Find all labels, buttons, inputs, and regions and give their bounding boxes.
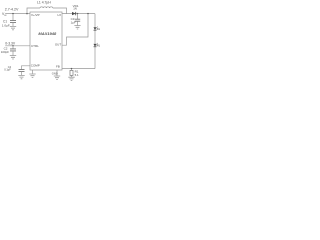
- svg-text:IN: IN: [4, 15, 7, 17]
- svg-text:CTRL: CTRL: [31, 44, 39, 48]
- svg-text:0.1µF: 0.1µF: [4, 67, 11, 71]
- resistor R1: [70, 69, 73, 78]
- inductor L1: [40, 7, 53, 8]
- node junction output cap tap: [77, 13, 78, 14]
- diode VD1: [72, 12, 76, 15]
- wire OUT sense connection: [62, 14, 88, 46]
- resistor R1 label: [75, 69, 79, 76]
- wire COMP pin: [22, 66, 31, 70]
- capacitor C1 label: [2, 20, 10, 28]
- ground R1: [68, 77, 74, 80]
- node junction L1 tap: [26, 13, 27, 14]
- node junction FB resistor tap: [71, 68, 72, 69]
- wire VIN rail: [5, 13, 30, 15]
- ground COMP cap: [18, 75, 24, 78]
- LED HL2: [94, 43, 99, 47]
- capacitor C3 label: [71, 17, 76, 24]
- node junction OVP rail tap: [87, 13, 88, 14]
- svg-text:2.7-4.2V: 2.7-4.2V: [5, 8, 19, 12]
- ground IC PGND: [54, 76, 60, 79]
- diode VD1 label: [73, 4, 79, 11]
- svg-text:5.1: 5.1: [75, 73, 79, 77]
- svg-text:HL2: HL2: [97, 43, 100, 47]
- node junction CTRL cap tap: [12, 45, 13, 46]
- wire inductor to LX riser: [53, 8, 67, 14]
- wire LED string drop: [94, 14, 96, 69]
- svg-text:MAX1948: MAX1948: [38, 31, 57, 36]
- svg-text:1.0µF: 1.0µF: [2, 23, 10, 27]
- svg-text:COMP: COMP: [31, 63, 40, 67]
- node VIN input label: [2, 12, 7, 17]
- IC U1 MAX1948 box: [30, 12, 62, 70]
- capacitor C1 input branch: [10, 14, 16, 27]
- svg-text:HL1: HL1: [97, 27, 100, 31]
- ground IC GND: [29, 74, 35, 77]
- capacitor C3 output branch: [75, 14, 80, 26]
- wire CTRL input: [5, 45, 30, 47]
- svg-text:0-3.3V: 0-3.3V: [5, 42, 16, 46]
- capacitor C4 COMP branch: [19, 70, 25, 76]
- node junction CIN tap: [12, 13, 13, 14]
- svg-text:OUT: OUT: [55, 42, 62, 46]
- wire FB rail: [62, 68, 95, 70]
- svg-text:LX: LX: [58, 13, 62, 17]
- ground CTRL cap: [10, 56, 16, 59]
- LED HL1: [94, 27, 99, 31]
- ground input cap: [10, 26, 16, 29]
- ground output cap: [74, 26, 80, 29]
- svg-text:1µF: 1µF: [71, 20, 76, 24]
- capacitor C2 label: [1, 46, 9, 53]
- capacitor C2 CTRL branch: [10, 46, 16, 56]
- svg-text:100pF: 100pF: [1, 50, 9, 54]
- svg-text:1N: 1N: [73, 7, 77, 11]
- wire IC GND pin stub: [32, 70, 34, 74]
- capacitor C4 label: [4, 65, 11, 71]
- svg-text:V+/VP: V+/VP: [31, 13, 40, 17]
- svg-text:L1 4.7µH: L1 4.7µH: [37, 1, 51, 5]
- wire riser to inductor: [27, 8, 40, 14]
- wire LX pin to output rail: [62, 13, 95, 15]
- wire IC PGND pin stub: [56, 70, 58, 76]
- svg-text:FB: FB: [56, 65, 60, 69]
